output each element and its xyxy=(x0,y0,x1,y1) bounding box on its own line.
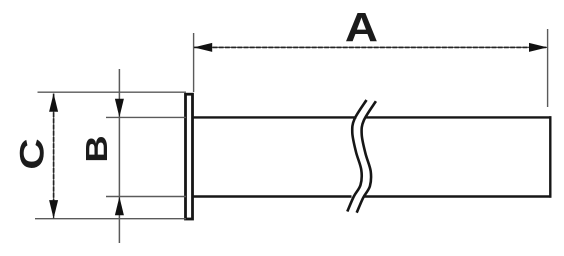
dimension C arrowhead top xyxy=(49,93,58,111)
label A xyxy=(345,5,378,50)
dimension A arrowhead right xyxy=(529,43,547,52)
tube top edge (left segment) xyxy=(193,116,357,118)
tube bottom edge (left segment) xyxy=(193,195,352,197)
break symbol right curve xyxy=(357,101,376,213)
svg-text:C: C xyxy=(14,138,51,169)
tube top edge (right segment) xyxy=(366,116,551,118)
flange (left end plate) xyxy=(186,94,193,219)
svg-text:A: A xyxy=(345,5,378,50)
dimension B line xyxy=(118,69,120,243)
break symbol left curve xyxy=(347,100,366,212)
dimension C line (dashed) xyxy=(53,94,55,219)
dimension B arrowhead top (points down) xyxy=(115,99,124,117)
svg-text:B: B xyxy=(80,135,114,162)
dimension A line (dashed) xyxy=(194,46,547,48)
dimension C extension line top xyxy=(38,91,187,93)
dimension B arrowhead bottom (points up) xyxy=(115,197,124,215)
dimension A extension line left xyxy=(193,33,195,92)
tube right end edge xyxy=(549,116,551,197)
dimension A arrowhead left xyxy=(194,43,212,52)
dimension A extension line right xyxy=(547,29,549,107)
dimension C extension line bottom xyxy=(35,218,186,220)
label B (rotated) xyxy=(80,135,114,162)
label C (rotated) xyxy=(14,138,51,169)
dimension B extension line top xyxy=(106,116,186,118)
dimension C arrowhead bottom xyxy=(49,200,58,218)
tube bottom edge (right segment) xyxy=(364,195,552,197)
dimension B extension line bottom xyxy=(106,196,186,198)
